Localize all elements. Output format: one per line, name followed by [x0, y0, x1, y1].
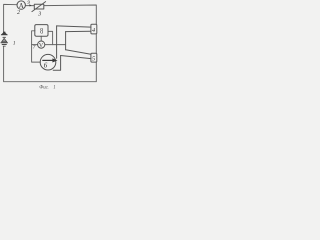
- wire box8 right lead down: [48, 31, 53, 44]
- svg-text:6: 6: [44, 62, 48, 70]
- wire vertical horn4 bottom to horn5 top: [65, 32, 67, 50]
- wire vertical from horn4 top corner down to detector: [56, 26, 58, 58]
- horn 5 bottom edge: [61, 56, 91, 59]
- svg-text:2: 2: [17, 10, 20, 16]
- voltmeter circle 7: [38, 41, 45, 48]
- indicator box 8: [35, 25, 48, 37]
- wire horn5 left vertical down to circle6 bottom: [53, 56, 60, 71]
- wire box8 left lead down to circle6 left: [32, 31, 41, 62]
- discharge electrode dome: [1, 32, 8, 36]
- wire right vertical between box4 and box5: [95, 34, 97, 53]
- wire top-left from corner to ammeter: [4, 4, 17, 31]
- pointer arrowhead for label 9: [29, 4, 31, 6]
- svg-text:Фиг.: Фиг.: [39, 85, 48, 90]
- box 5: [91, 53, 97, 62]
- wire circle7 top lead to box8: [40, 36, 42, 41]
- detector arrow inside circle 6: [42, 58, 57, 62]
- svg-text:4: 4: [92, 27, 95, 34]
- svg-text:3: 3: [37, 11, 41, 17]
- ground bar 3: [3, 45, 5, 47]
- svg-text:A: A: [19, 2, 24, 10]
- ammeter circle 2: [17, 1, 25, 9]
- attenuator diagonal: [32, 2, 46, 12]
- ground triangle electrode: [2, 38, 7, 42]
- detector circle 6: [40, 54, 56, 70]
- svg-text:5: 5: [92, 56, 95, 63]
- wire branch to voltmeter circle7 left: [32, 44, 38, 46]
- wire ammeter to attenuator: [26, 5, 35, 7]
- box 4: [91, 24, 97, 34]
- svg-text:1: 1: [53, 85, 55, 90]
- svg-text:7: 7: [33, 45, 36, 51]
- horn 4 bottom edge: [66, 30, 91, 32]
- wire right vertical below box5 to bottom and bottom wire to left vertical: [4, 46, 97, 81]
- spark gap upper plate dash: [3, 36, 6, 38]
- horn 4 top edge: [57, 26, 91, 27]
- horn 5 top edge: [66, 50, 91, 54]
- wire attenuator to top-right corner and right vertical upper: [44, 5, 96, 24]
- attenuator box 3: [34, 4, 44, 9]
- wire circle7 right to vertical: [45, 44, 66, 46]
- svg-text:V: V: [39, 43, 44, 49]
- svg-text:1: 1: [13, 40, 16, 46]
- ground bar 2: [2, 44, 6, 46]
- svg-text:8: 8: [40, 26, 43, 36]
- ground bar 1: [1, 42, 8, 44]
- background: [0, 0, 100, 91]
